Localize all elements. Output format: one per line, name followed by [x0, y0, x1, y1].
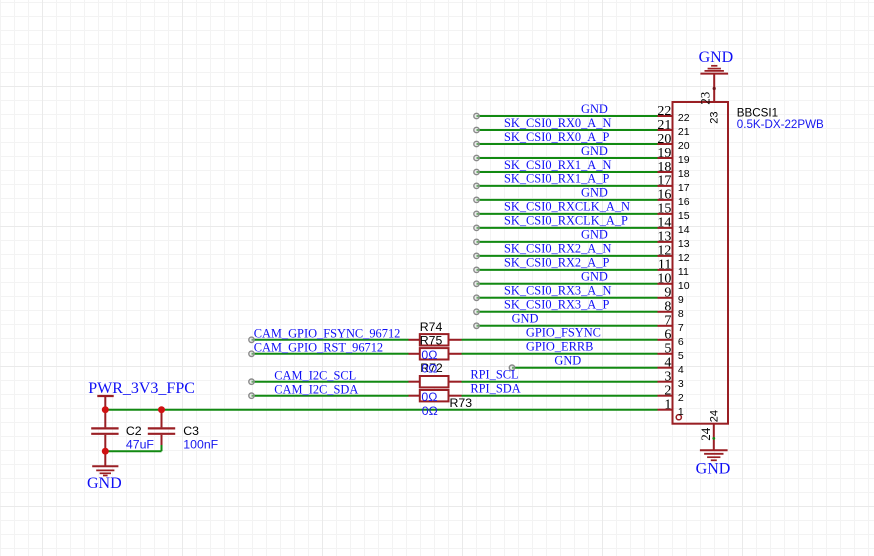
- svg-text:GND: GND: [87, 475, 122, 492]
- svg-text:GND: GND: [581, 228, 608, 242]
- svg-text:CAM_GPIO_RST_96712: CAM_GPIO_RST_96712: [254, 340, 383, 354]
- svg-text:6: 6: [664, 328, 671, 343]
- svg-text:0Ω: 0Ω: [421, 390, 437, 404]
- svg-text:R73: R73: [450, 396, 473, 410]
- svg-text:SK_CSI0_RX2_A_N: SK_CSI0_RX2_A_N: [504, 242, 611, 256]
- svg-text:4: 4: [664, 356, 671, 371]
- svg-text:0Ω: 0Ω: [421, 361, 437, 375]
- svg-text:16: 16: [678, 196, 690, 208]
- svg-text:GND: GND: [699, 49, 734, 66]
- svg-text:C2: C2: [126, 424, 142, 438]
- svg-text:12: 12: [657, 244, 671, 259]
- svg-text:SK_CSI0_RXCLK_A_N: SK_CSI0_RXCLK_A_N: [504, 200, 630, 214]
- svg-text:GND: GND: [696, 461, 731, 478]
- svg-text:5: 5: [678, 350, 684, 362]
- svg-text:10: 10: [657, 272, 671, 287]
- svg-text:3: 3: [678, 378, 684, 390]
- svg-text:1: 1: [664, 398, 671, 413]
- svg-text:8: 8: [678, 308, 684, 320]
- svg-text:9: 9: [664, 286, 671, 301]
- svg-text:14: 14: [678, 224, 690, 236]
- svg-text:3: 3: [664, 370, 671, 385]
- svg-text:GPIO_ERRB: GPIO_ERRB: [526, 340, 593, 354]
- svg-text:SK_CSI0_RX1_A_N: SK_CSI0_RX1_A_N: [504, 158, 611, 172]
- svg-text:24: 24: [698, 427, 713, 441]
- svg-text:0Ω: 0Ω: [421, 348, 437, 362]
- svg-text:18: 18: [678, 168, 690, 180]
- svg-text:20: 20: [657, 132, 671, 147]
- svg-text:15: 15: [657, 202, 671, 217]
- svg-text:17: 17: [678, 182, 690, 194]
- svg-text:SK_CSI0_RX3_A_N: SK_CSI0_RX3_A_N: [504, 284, 611, 298]
- svg-text:R75: R75: [420, 334, 443, 348]
- svg-text:10: 10: [678, 280, 690, 292]
- svg-text:GND: GND: [581, 102, 608, 116]
- svg-text:24: 24: [708, 410, 720, 422]
- svg-text:SK_CSI0_RXCLK_A_P: SK_CSI0_RXCLK_A_P: [504, 214, 628, 228]
- svg-text:7: 7: [664, 314, 671, 329]
- svg-text:12: 12: [678, 252, 690, 264]
- svg-text:SK_CSI0_RX3_A_P: SK_CSI0_RX3_A_P: [504, 298, 609, 312]
- svg-text:GND: GND: [581, 270, 608, 284]
- svg-text:13: 13: [657, 230, 671, 245]
- svg-text:22: 22: [678, 112, 690, 124]
- svg-text:PWR_3V3_FPC: PWR_3V3_FPC: [88, 380, 195, 397]
- svg-text:16: 16: [657, 188, 671, 203]
- svg-text:0.5K-DX-22PWB: 0.5K-DX-22PWB: [737, 118, 824, 131]
- svg-text:15: 15: [678, 210, 690, 222]
- svg-text:19: 19: [678, 154, 690, 166]
- svg-text:CAM_I2C_SDA: CAM_I2C_SDA: [274, 382, 358, 396]
- svg-text:23: 23: [708, 111, 720, 123]
- svg-text:19: 19: [657, 146, 671, 161]
- svg-text:RPI_SDA: RPI_SDA: [470, 382, 520, 396]
- svg-text:C3: C3: [183, 424, 199, 438]
- svg-text:GND: GND: [554, 354, 581, 368]
- svg-text:22: 22: [657, 104, 671, 119]
- svg-text:0Ω: 0Ω: [422, 404, 438, 418]
- svg-text:SK_CSI0_RX0_A_N: SK_CSI0_RX0_A_N: [504, 116, 611, 130]
- svg-text:11: 11: [658, 258, 671, 273]
- svg-text:100nF: 100nF: [183, 437, 218, 451]
- svg-text:2: 2: [664, 384, 671, 399]
- svg-text:23: 23: [697, 92, 712, 105]
- svg-text:8: 8: [664, 300, 671, 315]
- svg-text:SK_CSI0_RX0_A_P: SK_CSI0_RX0_A_P: [504, 130, 609, 144]
- svg-text:4: 4: [678, 364, 684, 376]
- svg-text:GND: GND: [581, 186, 608, 200]
- svg-text:21: 21: [657, 118, 671, 133]
- svg-text:21: 21: [678, 126, 690, 138]
- svg-text:GPIO_FSYNC: GPIO_FSYNC: [526, 326, 601, 340]
- svg-text:20: 20: [678, 140, 690, 152]
- svg-text:2: 2: [678, 392, 684, 404]
- svg-text:5: 5: [664, 342, 671, 357]
- svg-text:GND: GND: [512, 312, 539, 326]
- svg-text:CAM_GPIO_FSYNC_96712: CAM_GPIO_FSYNC_96712: [254, 326, 401, 340]
- svg-text:47uF: 47uF: [126, 437, 155, 451]
- svg-text:13: 13: [678, 238, 690, 250]
- svg-text:SK_CSI0_RX1_A_P: SK_CSI0_RX1_A_P: [504, 172, 609, 186]
- svg-text:RPI_SCL: RPI_SCL: [470, 368, 518, 382]
- svg-text:CAM_I2C_SCL: CAM_I2C_SCL: [274, 368, 356, 382]
- svg-text:6: 6: [678, 336, 684, 348]
- svg-text:18: 18: [657, 160, 671, 175]
- svg-text:1: 1: [678, 406, 684, 418]
- svg-text:11: 11: [678, 266, 689, 278]
- svg-text:GND: GND: [581, 144, 608, 158]
- svg-text:9: 9: [678, 294, 684, 306]
- svg-text:14: 14: [657, 216, 671, 231]
- svg-text:7: 7: [678, 322, 684, 334]
- svg-text:R74: R74: [420, 320, 443, 334]
- svg-text:17: 17: [657, 174, 671, 189]
- svg-text:SK_CSI0_RX2_A_P: SK_CSI0_RX2_A_P: [504, 256, 609, 270]
